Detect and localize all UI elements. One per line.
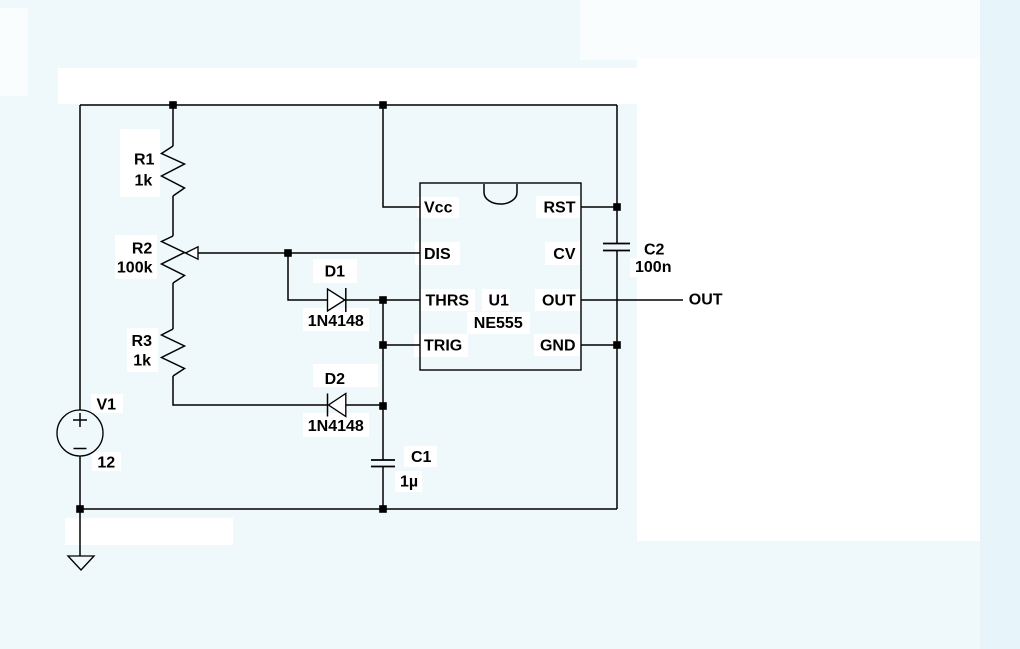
svg-text:1k: 1k (135, 173, 153, 190)
svg-text:100n: 100n (635, 259, 671, 276)
svg-text:1N4148: 1N4148 (308, 418, 364, 435)
svg-text:1µ: 1µ (400, 473, 418, 490)
svg-text:1k: 1k (133, 353, 151, 370)
svg-text:R3: R3 (132, 333, 153, 350)
svg-text:OUT: OUT (689, 292, 723, 309)
svg-text:D1: D1 (325, 264, 346, 281)
svg-text:V1: V1 (97, 396, 117, 413)
svg-text:RST: RST (544, 200, 576, 217)
svg-text:R2: R2 (132, 240, 153, 257)
svg-text:GND: GND (540, 338, 576, 355)
svg-text:OUT: OUT (542, 293, 576, 310)
svg-text:1N4148: 1N4148 (308, 313, 364, 330)
svg-text:C2: C2 (644, 242, 665, 259)
svg-text:U1: U1 (489, 293, 510, 310)
svg-text:R1: R1 (134, 152, 155, 169)
svg-text:THRS: THRS (426, 293, 470, 310)
svg-text:DIS: DIS (424, 246, 451, 263)
svg-text:12: 12 (97, 454, 115, 471)
svg-text:Vcc: Vcc (424, 200, 453, 217)
svg-text:TRIG: TRIG (424, 338, 462, 355)
svg-text:CV: CV (553, 246, 576, 263)
svg-text:D2: D2 (325, 371, 346, 388)
svg-text:NE555: NE555 (474, 315, 523, 332)
svg-text:C1: C1 (411, 449, 432, 466)
svg-text:100k: 100k (117, 260, 153, 277)
